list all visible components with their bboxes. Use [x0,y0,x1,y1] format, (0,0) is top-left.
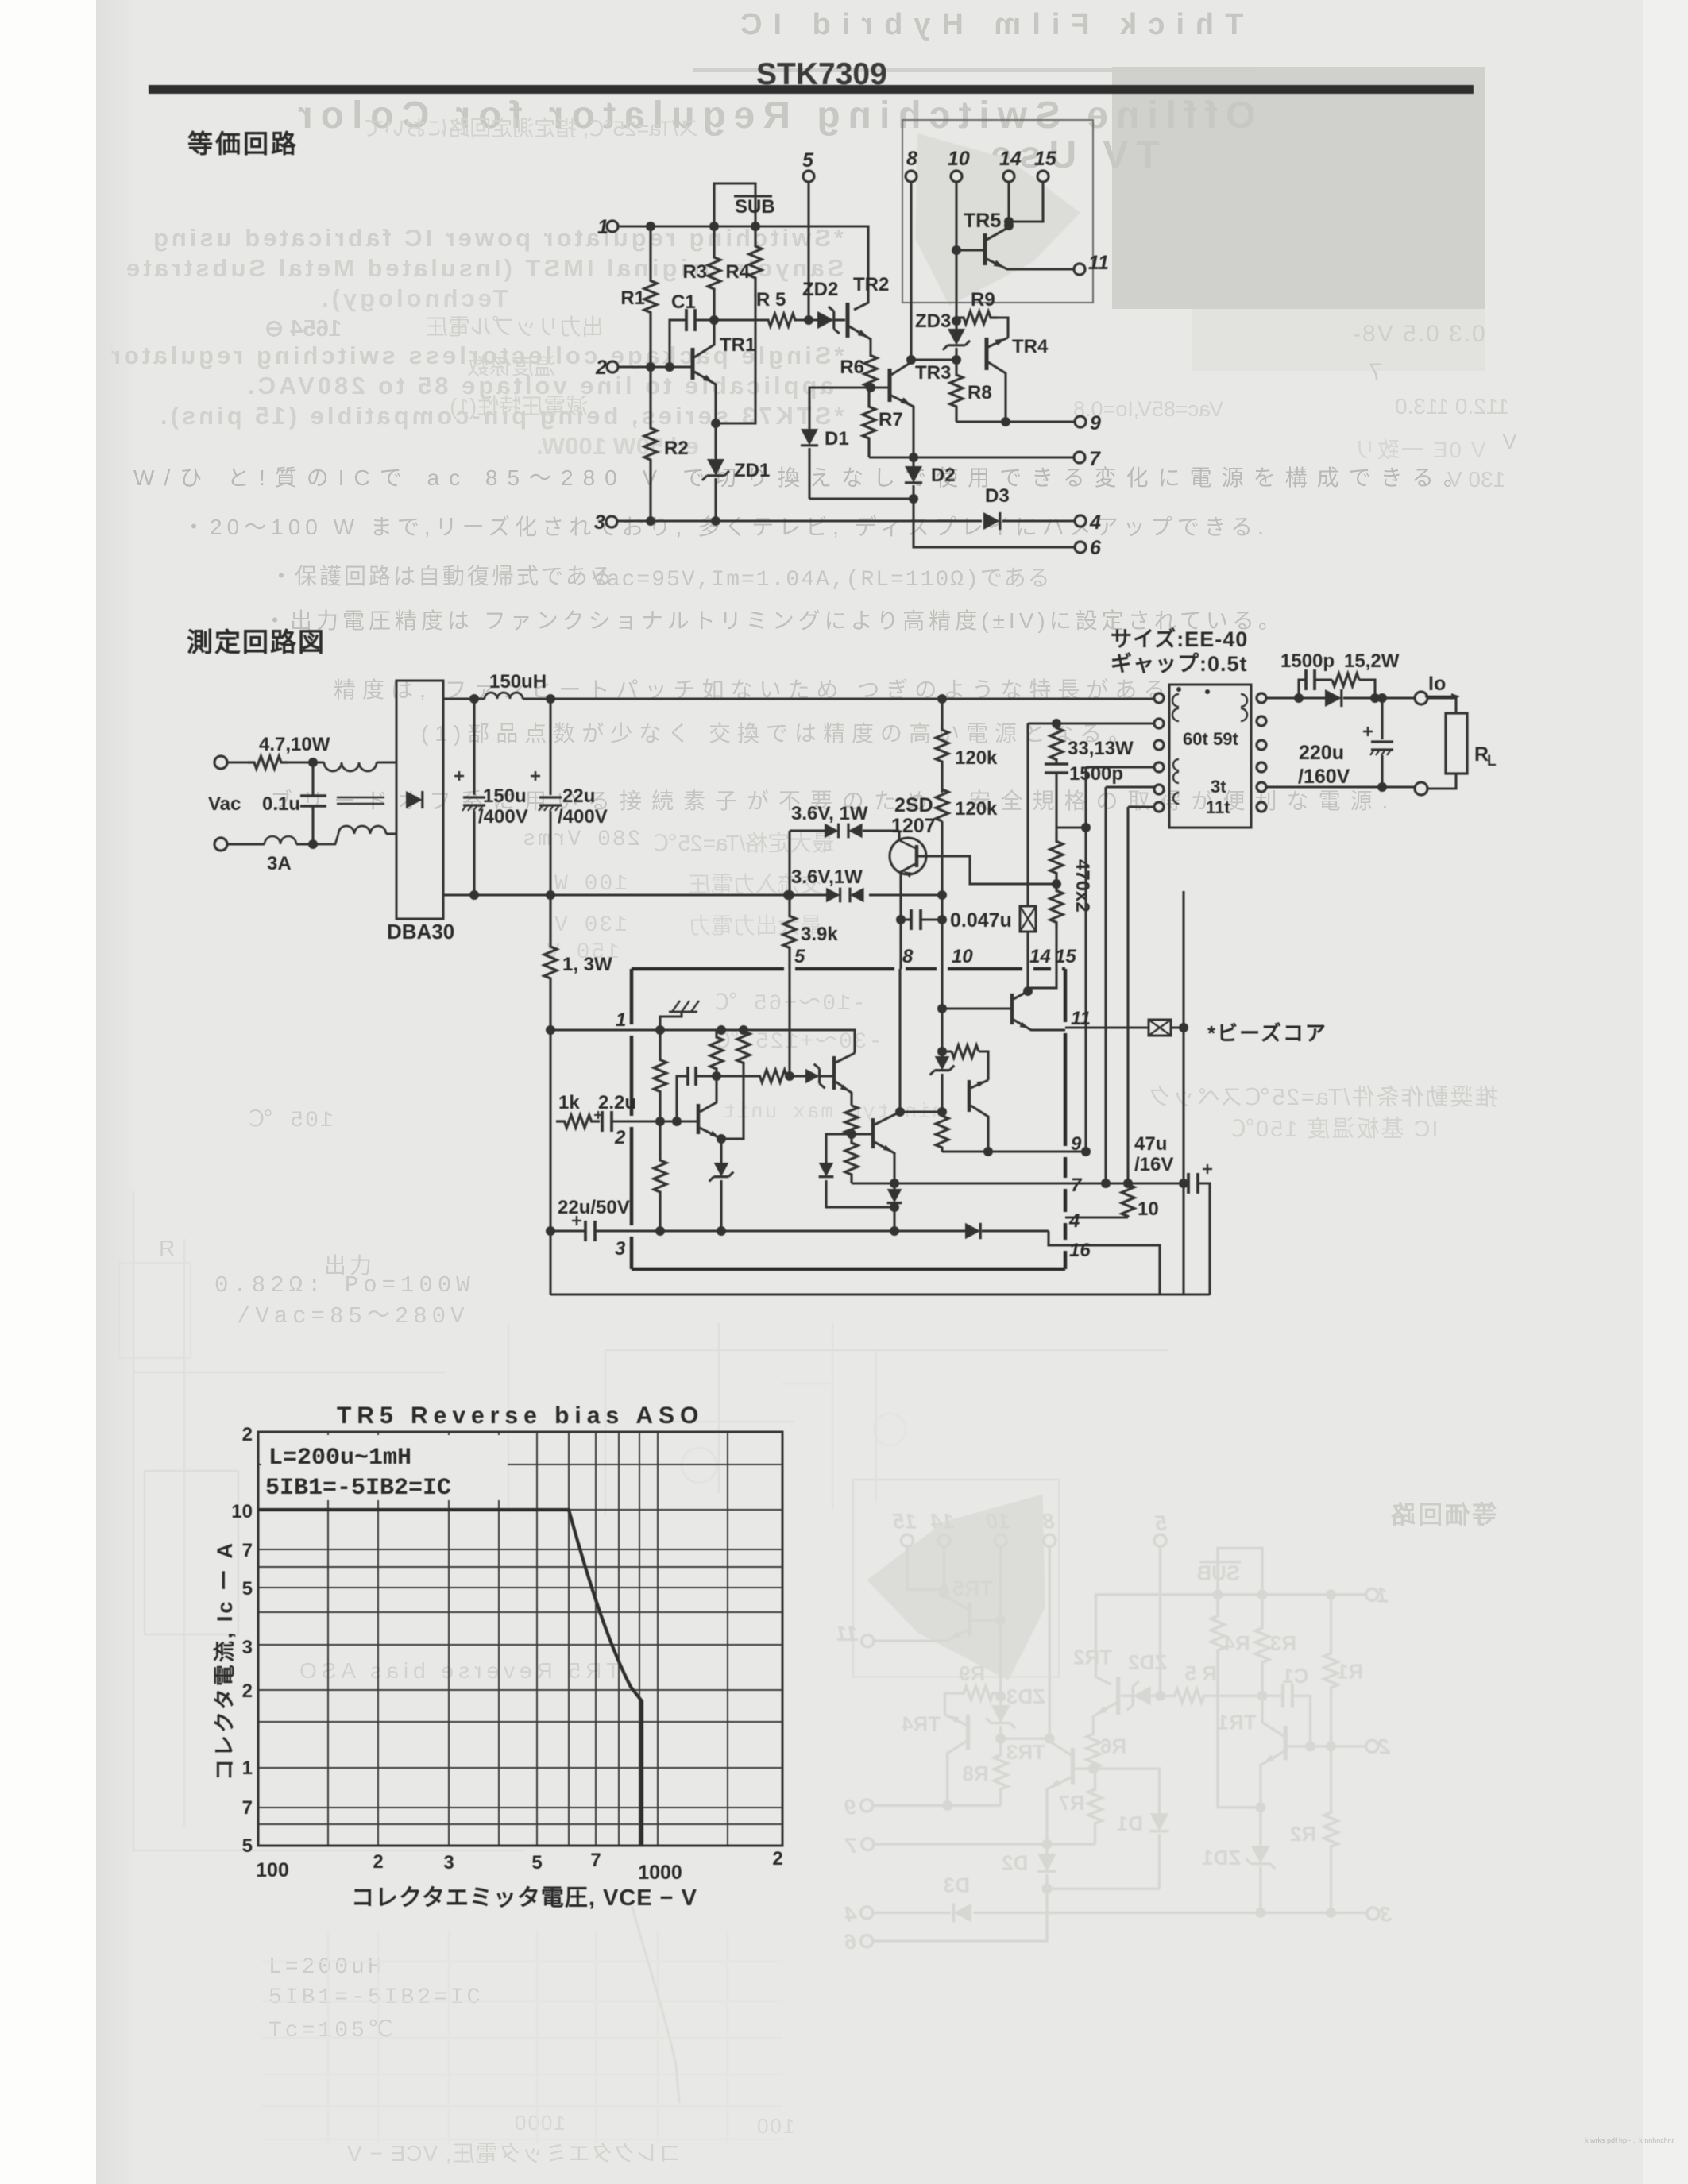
transistor TR3 [888,369,892,402]
svg-text:コレクタ電流, Ic ー A: コレクタ電流, Ic ー A [213,1541,237,1781]
svg-text:Io: Io [1428,673,1446,695]
svg-text:DBA30: DBA30 [387,920,454,943]
svg-text:3.6V, 1W: 3.6V, 1W [791,803,868,824]
svg-text:120k: 120k [955,798,998,820]
svg-text:R6: R6 [1100,1736,1126,1758]
svg-text:TR4: TR4 [1012,336,1049,357]
svg-text:9: 9 [1071,1133,1082,1155]
resistor R4 [749,226,762,298]
svg-text:2: 2 [1378,1735,1391,1759]
svg-text:R9: R9 [971,289,995,311]
internal pin8 lead [898,969,901,1112]
svg-text:3A: 3A [267,853,292,874]
internal transistor TR3 [871,1118,875,1148]
svg-text:ZD2: ZD2 [1128,1652,1167,1674]
svg-text:100: 100 [256,1859,289,1881]
capacitor 150u/400V [473,699,475,795]
internal base line + diode D1 [826,1134,873,1163]
svg-text:10: 10 [987,1510,1010,1534]
wire secondary top [1266,696,1325,699]
svg-text:150u: 150u [483,785,527,807]
svg-text:15: 15 [1055,946,1076,967]
capacitor C1 [670,320,686,367]
wire top rail [443,697,485,700]
transistor TR1 [691,348,695,380]
internal pin7 line [852,1182,1065,1184]
zener diode ZD1 [714,423,717,459]
internal zener ZD3 + pin10 lead [941,969,943,1056]
svg-text:1k: 1k [558,1092,580,1113]
svg-text:33,13W: 33,13W [1068,738,1134,759]
svg-text:3: 3 [1380,1902,1392,1926]
resistor R2 [644,367,657,521]
svg-text:Vac: Vac [208,793,241,815]
svg-text:9: 9 [844,1795,856,1819]
resistor 120k lower [936,789,948,821]
svg-text:R3: R3 [1270,1633,1296,1655]
svg-text:R7: R7 [1058,1792,1084,1815]
svg-text:22u: 22u [562,785,595,807]
ferrite bead on pin14 lead [1020,906,1036,932]
svg-text:47u: 47u [1134,1133,1167,1155]
svg-text:TR4: TR4 [902,1714,941,1736]
capacitor 1500p primary [1045,762,1068,765]
svg-text:1207: 1207 [891,815,936,837]
svg-text:*ビーズコア: *ビーズコア [1207,1021,1327,1045]
svg-text:R2: R2 [1290,1823,1316,1846]
svg-text:5IB1=-5IB2=IC: 5IB1=-5IB2=IC [265,1475,451,1502]
svg-text:120k: 120k [955,747,998,769]
svg-text:D2: D2 [1002,1852,1028,1874]
svg-text:6: 6 [1090,537,1102,559]
wire pin 4 line [1065,1216,1128,1218]
svg-text:2: 2 [242,1680,253,1702]
svg-text:TR3: TR3 [915,362,951,384]
svg-text:/400V: /400V [478,806,528,828]
common mode choke [324,762,377,771]
svg-text:8: 8 [906,148,917,170]
svg-text:5: 5 [242,1835,253,1857]
svg-text:TR5 Reverse bias ASO: TR5 Reverse bias ASO [337,1403,704,1429]
svg-text:3.9k: 3.9k [801,924,838,945]
svg-text:D3: D3 [944,1875,970,1897]
internal resistor R2 [654,1121,666,1231]
output diode [1325,689,1342,707]
svg-text:ZD1: ZD1 [734,460,770,481]
pin 11 [1074,264,1085,275]
svg-text:TR2: TR2 [853,274,889,295]
wire pin 16 line [1065,1245,1160,1295]
svg-text:5: 5 [794,946,805,967]
svg-text:3: 3 [242,1637,253,1658]
svg-text:11: 11 [836,1622,858,1646]
svg-text:D1: D1 [1117,1813,1143,1835]
svg-text:15: 15 [892,1510,917,1534]
wire pin3 / pin4 rail [617,519,982,522]
svg-text:11: 11 [1088,252,1109,274]
wire bottom return rail [550,1293,1210,1295]
wire secondary bottom [1266,785,1415,788]
svg-text:8: 8 [1043,1510,1055,1534]
svg-text:22u/50V: 22u/50V [558,1197,630,1218]
internal transistor TR5 [1010,994,1014,1024]
capacitor 220u/160V [1381,698,1383,739]
wire pin 11 line + ferrite bead [1065,1026,1149,1028]
wire TR3 base [809,388,889,429]
pin 4 [1002,519,1074,522]
internal zener ZD2 [805,1069,820,1084]
SUB substrate pin [714,183,755,226]
svg-text:2: 2 [595,357,607,379]
resistor R7 [863,388,875,457]
svg-text:10: 10 [1138,1198,1159,1220]
svg-text:9: 9 [1090,412,1101,434]
svg-text:R9: R9 [959,1663,985,1685]
resistor 1,3W [544,895,557,1030]
svg-text:8: 8 [902,946,914,967]
pin 9 [956,420,1074,423]
transistor TR5 [983,233,987,265]
resistor 10 ohm [1122,1183,1134,1217]
internal transistor TR4 [968,1080,971,1112]
svg-text:R6: R6 [840,357,864,378]
transformer EE-40 [1169,685,1251,828]
svg-text:15,2W: 15,2W [1344,650,1400,672]
svg-text:TR5: TR5 [952,1576,993,1600]
internal resistor R8 [936,1112,948,1152]
resistor R8 [950,360,963,422]
svg-text:D2: D2 [931,465,956,486]
svg-text:3t: 3t [1211,777,1226,797]
svg-text:C1: C1 [671,291,696,313]
load resistor RL [1446,713,1467,774]
resistor 3.9k [788,831,790,895]
svg-text:/160V: /160V [1298,766,1350,788]
svg-text:2.2u: 2.2u [598,1092,636,1113]
svg-text:5: 5 [531,1852,542,1873]
bridge rectifier DBA30 [396,681,443,919]
ASO curve [258,1510,642,1846]
wire primary feed [1028,722,1154,724]
svg-text:11: 11 [1071,1008,1091,1029]
svg-text:R8: R8 [962,1763,988,1785]
resistor R3 [708,226,720,320]
internal R5 + pin5 lead [717,1075,759,1077]
svg-text:コレクタエミッタ電圧, VCE − V: コレクタエミッタ電圧, VCE − V [351,1885,697,1911]
resistor R5 [714,318,767,321]
wire pin1 rail [618,226,868,310]
svg-text:1, 3W: 1, 3W [562,954,612,975]
svg-text:ZD2: ZD2 [802,279,838,300]
internal resistor R6 [845,1106,858,1134]
svg-text:4: 4 [1068,1210,1080,1232]
internal resistor R7 [845,1134,858,1183]
pin 7 [869,456,1073,458]
svg-text:2SD: 2SD [894,794,933,816]
resistors 470x2 [1050,831,1063,884]
wire pin 7 line + capacitor 47u/16V [1065,1182,1188,1184]
svg-text:D3: D3 [985,485,1010,507]
internal transistor TR1 [697,1104,701,1134]
svg-text:測定回路図: 測定回路図 [187,627,326,657]
svg-text:5: 5 [802,149,814,172]
internal transistor TR2 [832,1056,836,1090]
header rule [149,85,1474,94]
svg-text:10: 10 [948,148,970,170]
svg-text:L=200u~1mH: L=200u~1mH [268,1445,411,1472]
svg-text:6: 6 [844,1930,856,1954]
wire bottom rail [443,893,826,896]
internal zener ZD1 [714,1163,729,1177]
svg-text:2: 2 [614,1127,626,1148]
svg-text:/16V: /16V [1134,1154,1173,1175]
internal resistor R4 [737,1030,750,1064]
internal ground [660,1012,682,1030]
internal resistor R3 [710,1030,723,1076]
svg-text:4.7,10W: 4.7,10W [259,734,330,755]
svg-text:等価回路: 等価回路 [187,129,299,158]
wire pin2 base line [618,365,693,368]
svg-text:R4: R4 [1223,1633,1250,1655]
internal pin1 rail [632,1030,855,1053]
svg-text:2: 2 [242,1424,253,1445]
output terminal Io [1415,692,1427,704]
svg-text:3.6V,1W: 3.6V,1W [791,866,863,888]
svg-text:R7: R7 [879,409,903,430]
svg-text:TR1: TR1 [720,334,755,356]
svg-text:7: 7 [1089,448,1101,470]
snubber 1500p + 15,2W [1299,680,1306,698]
svg-text:14: 14 [1029,946,1051,967]
internal resistor R1 [654,1030,666,1121]
svg-text:C1: C1 [1282,1665,1308,1688]
svg-text:0.047u: 0.047u [950,909,1012,932]
svg-text:ZD3: ZD3 [1006,1686,1045,1708]
svg-text:7: 7 [844,1834,857,1858]
svg-text:サイズ:EE-40: サイズ:EE-40 [1111,627,1248,651]
svg-text:4: 4 [844,1902,857,1926]
svg-text:7: 7 [590,1850,601,1871]
diode D1 [801,429,818,446]
svg-text:ギャップ:0.5t: ギャップ:0.5t [1111,652,1248,676]
internal bottom rail + diode D3 [632,1229,965,1232]
internal pin2 line [632,1120,698,1122]
capacitor 22u/400V [549,699,551,795]
svg-text:SUB: SUB [1196,1562,1240,1584]
input terminal Vac top [214,756,227,769]
zener diode ZD3 [955,321,957,329]
fuse 3A [265,836,296,844]
transistor TR4 [985,338,989,370]
IC package box [632,967,784,971]
svg-text:10: 10 [231,1501,253,1522]
capacitor 22u/50V [550,1229,585,1232]
svg-text:1000: 1000 [638,1862,682,1884]
svg-text:150uH: 150uH [489,671,547,693]
svg-text:3: 3 [443,1852,454,1873]
svg-text:7: 7 [1071,1175,1083,1196]
svg-text:R2: R2 [664,438,689,459]
input terminal Vac bottom [214,838,227,851]
svg-text:SUB: SUB [735,196,775,218]
svg-text:0.1u: 0.1u [262,793,300,815]
wire D1 to D2 node [809,497,914,500]
pin 6 [914,499,1074,547]
svg-text:15: 15 [1034,148,1057,170]
internal resistor R9 [942,1050,952,1052]
svg-text:5: 5 [1154,1511,1167,1535]
resistor R9 [956,311,998,324]
svg-text:R4: R4 [725,261,750,283]
svg-text:2: 2 [772,1848,782,1870]
winding tap wires [1086,766,1154,768]
diode D2 [912,457,914,466]
svg-text:59t: 59t [1213,729,1238,749]
svg-text:16: 16 [1069,1240,1091,1261]
transistor TR2 [846,303,850,338]
resistor R6 [864,355,877,388]
resistor 33,13W [1050,723,1063,764]
svg-text:14: 14 [930,1510,954,1534]
svg-text:1500p: 1500p [1280,650,1335,672]
svg-text:3: 3 [594,511,605,534]
wire pin1 feed [550,1028,632,1031]
wire ground left column [549,1030,551,1295]
internal pin9 line [942,1150,1065,1152]
capacitor 0.047u [901,918,911,920]
svg-text:2: 2 [373,1851,383,1873]
svg-text:R1: R1 [1337,1661,1363,1684]
svg-text:7: 7 [242,1540,253,1561]
svg-text:3: 3 [615,1238,626,1260]
svg-text:R8: R8 [968,382,992,403]
svg-text:ZD1: ZD1 [1202,1847,1241,1870]
svg-text:TR1: TR1 [1218,1711,1257,1734]
internal diode D2 [893,1183,895,1189]
graph grid [327,1432,329,1846]
svg-text:11t: 11t [1206,797,1230,817]
svg-text:1: 1 [242,1758,253,1779]
svg-text:R3: R3 [682,261,707,283]
svg-text:14: 14 [999,148,1022,170]
resistor 120k upper [936,699,948,793]
svg-text:1: 1 [616,1009,626,1031]
svg-text:5: 5 [242,1578,253,1599]
svg-text:R1: R1 [620,287,645,309]
zener diode ZD2 [817,311,834,329]
resistor R1 [644,226,657,367]
inductor 150uH [485,693,523,699]
capacitor 0.1u [311,762,314,796]
svg-text:470x2: 470x2 [1072,859,1093,913]
svg-text:TR5: TR5 [964,210,1001,232]
svg-text:60t: 60t [1183,729,1208,749]
svg-text:10: 10 [952,946,973,967]
transistor 2SD1207 [898,831,900,840]
diode D3 [983,512,1000,530]
svg-text:220u: 220u [1299,742,1344,764]
svg-text:ZD3: ZD3 [915,311,951,332]
resistor 4.7,10W [248,756,288,769]
svg-text:/400V: /400V [558,806,608,828]
wire pin 9 line [1065,1150,1086,1152]
svg-text:4: 4 [1089,511,1101,534]
svg-text:7: 7 [242,1797,253,1819]
svg-text:D1: D1 [825,428,849,450]
internal capacitor C1 [677,1076,688,1121]
hybrid IC outline box around TR5 [902,120,1093,303]
svg-text:R 5: R 5 [1185,1663,1217,1685]
svg-text:TR2: TR2 [1073,1646,1112,1669]
svg-text:L: L [1487,753,1497,770]
svg-text:R 5: R 5 [756,289,786,311]
svg-text:TR3: TR3 [1006,1742,1045,1764]
